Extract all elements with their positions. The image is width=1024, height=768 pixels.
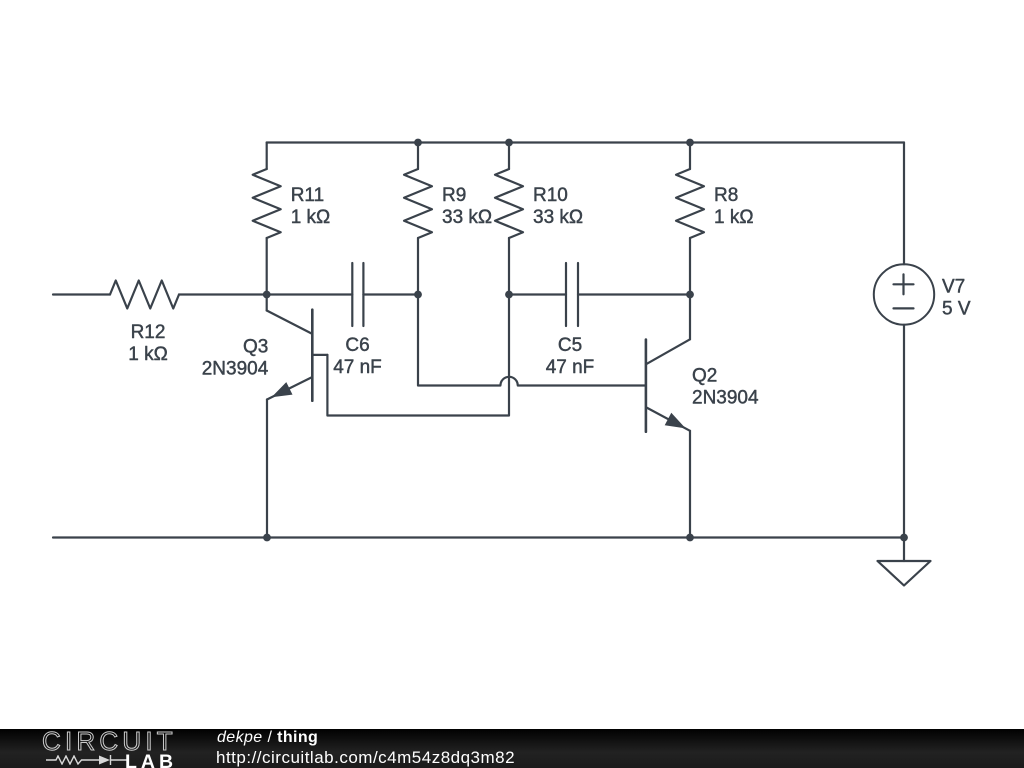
svg-text:1 kΩ: 1 kΩ [714, 207, 754, 228]
node: Q3 collector [263, 291, 271, 299]
CircuitLab logo [42, 726, 177, 757]
resistor R8 [676, 143, 704, 295]
node: R9 top [414, 139, 422, 147]
svg-text:47 nF: 47 nF [546, 357, 595, 378]
transistor Q2 [646, 295, 690, 538]
svg-text:Q3: Q3 [243, 337, 268, 358]
resistor R11 [253, 143, 281, 295]
svg-text:33 kΩ: 33 kΩ [442, 207, 492, 228]
node: C5/R10 [505, 291, 513, 299]
svg-text:1 kΩ: 1 kΩ [128, 344, 168, 365]
svg-text:2N3904: 2N3904 [202, 359, 269, 380]
node: Q2 emitter bottom [686, 534, 694, 542]
resistor R10 [495, 143, 523, 295]
capacitor C6 [267, 263, 418, 326]
wire: Q2 base to R9/C6 node (with hop) [418, 295, 646, 386]
node: Q2 collector [686, 291, 694, 299]
svg-text:C5: C5 [558, 335, 582, 356]
node: C6/R9 [414, 291, 422, 299]
svg-text:Q2: Q2 [692, 366, 717, 387]
svg-text:5 V: 5 V [942, 299, 971, 320]
svg-text:33 kΩ: 33 kΩ [533, 207, 583, 228]
svg-text:R8: R8 [714, 185, 738, 206]
footer bar [0, 729, 1024, 768]
ground [878, 538, 931, 586]
wire: input lead left [53, 293, 110, 295]
svg-text:C6: C6 [345, 335, 369, 356]
svg-text:2N3904: 2N3904 [692, 388, 759, 409]
node: V7 bottom / ground [900, 534, 908, 542]
voltage source V7 [874, 143, 934, 538]
resistor R9 [404, 143, 432, 295]
node: Q3 emitter bottom [263, 534, 271, 542]
wire: top rail [267, 141, 904, 143]
svg-text:R10: R10 [533, 185, 568, 206]
node: R10 top [505, 139, 513, 147]
svg-text:1 kΩ: 1 kΩ [291, 207, 331, 228]
svg-text:R11: R11 [291, 185, 324, 206]
svg-text:V7: V7 [942, 277, 965, 298]
footer title [217, 729, 318, 747]
svg-text:R9: R9 [442, 185, 466, 206]
capacitor C5 [509, 263, 690, 326]
node: R8 top [686, 139, 694, 147]
svg-text:R12: R12 [131, 322, 166, 343]
wire: Q3 base to R10/C5 node [327, 295, 509, 416]
footer url [216, 748, 515, 768]
svg-text:47 nF: 47 nF [333, 357, 382, 378]
wire: bottom rail [53, 536, 904, 538]
resistor R12 [110, 281, 267, 309]
transistor Q3 [267, 295, 328, 538]
logo squiggle: resistor + diode [46, 756, 99, 764]
